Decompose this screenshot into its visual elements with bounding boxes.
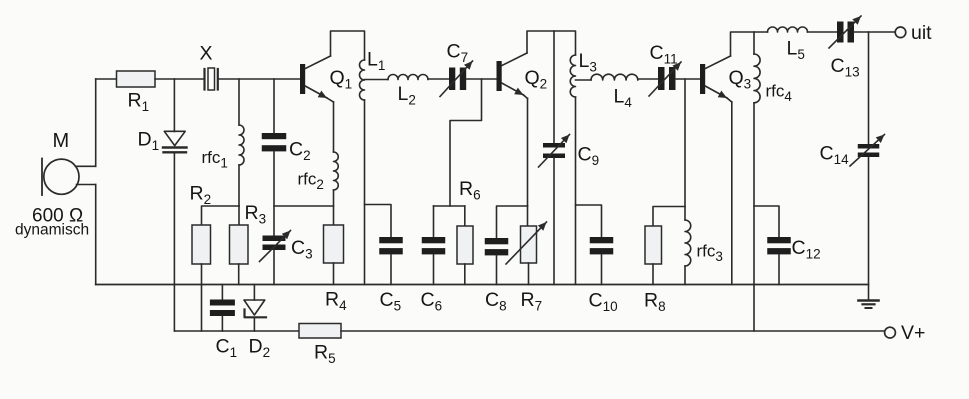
inductor L1 (360, 60, 365, 100)
wire C9 top lead from collector wire (553, 31, 555, 143)
svg-text:rfc3: rfc3 (697, 242, 723, 265)
resistor R5 (299, 324, 341, 339)
wire C6 top lead (433, 206, 435, 237)
wire C10 top jog from L3 line (576, 205, 602, 237)
capacitor C1 (210, 300, 235, 317)
wire D1 bottom lead down to V+ bus (173, 152, 175, 331)
wire C1 bottom lead (221, 316, 223, 331)
wire D2 bottom lead (253, 317, 255, 331)
wire C2 to C3 (273, 152, 275, 236)
wire Q3 collector up and over to L5 (731, 32, 768, 56)
inductor rfc3 (685, 220, 691, 266)
wire rfc1 bottom to R2/R3 node (238, 165, 240, 206)
crystal X (205, 68, 218, 90)
terminal V+ (885, 327, 896, 338)
capacitor C6 (422, 237, 446, 254)
wire C6-R6 top link (434, 205, 465, 207)
resistor R1 (117, 71, 156, 87)
wire C13 to output terminal (854, 31, 895, 33)
resistor R8 (645, 226, 662, 264)
svg-text:rfc2: rfc2 (298, 170, 324, 193)
wire C13 node down to C14 (868, 32, 870, 144)
wire R6 bottom to ground bus (464, 264, 466, 285)
svg-text:C6: C6 (421, 289, 443, 314)
wire V+ bus left segment (174, 330, 299, 332)
capacitor C2 (262, 133, 287, 151)
svg-text:C11: C11 (650, 42, 678, 67)
svg-text:L2: L2 (398, 83, 416, 108)
svg-text:C14: C14 (820, 143, 850, 168)
svg-text:R5: R5 (314, 342, 336, 367)
svg-text:C9: C9 (578, 144, 600, 169)
wire R8 top jog (653, 207, 685, 227)
wire emitter node jog to C8 (497, 206, 528, 238)
inductor rfc1 (239, 125, 244, 165)
inductor rfc2 (334, 152, 339, 190)
resistor R6 (457, 226, 473, 264)
svg-text:Q2: Q2 (525, 67, 548, 92)
svg-text:Q1: Q1 (330, 67, 353, 92)
wire ground bus (96, 284, 869, 286)
wire R1 to crystal X (155, 78, 204, 80)
resistor R2 (192, 225, 211, 264)
wire rfc3 bottom to ground bus (684, 266, 686, 285)
resistor R4 (324, 225, 344, 263)
svg-text:rfc1: rfc1 (202, 148, 228, 171)
svg-text:L3: L3 (579, 50, 597, 75)
wire C10 bottom to ground bus (601, 255, 603, 285)
svg-text:R2: R2 (190, 183, 212, 208)
wire rfc1 top lead (238, 79, 240, 125)
terminal uit (895, 27, 906, 38)
wire jog to R2 (202, 206, 240, 225)
transistor Q3 (700, 56, 732, 102)
svg-text:M: M (53, 130, 70, 152)
wire Q1 collector up and over to L1 (331, 31, 365, 60)
wire rfc4 bottom down to V+ bus (753, 103, 755, 331)
svg-text:R8: R8 (644, 289, 666, 314)
wire L1 tap to L2 (365, 79, 389, 81)
wire L3 tap to L4 (576, 79, 592, 81)
capacitor C10 (590, 237, 614, 254)
svg-text:R7: R7 (521, 289, 543, 314)
svg-text:L4: L4 (614, 86, 633, 111)
wire C2 top lead (273, 79, 275, 133)
wire X to Q1 base (218, 78, 300, 80)
capacitor C12 (767, 237, 791, 254)
wire C7 to Q2 base (466, 78, 496, 80)
svg-text:C7: C7 (447, 41, 469, 66)
wire R8 bottom to ground bus (652, 264, 654, 285)
wire C5 bottom to ground bus (390, 255, 392, 285)
wire Q3 emitter down to ground bus (731, 102, 733, 285)
svg-text:L5: L5 (787, 38, 805, 63)
wire D2 top lead (253, 285, 255, 301)
inductor L5 (768, 27, 808, 32)
wire C6 bottom to ground bus (433, 255, 435, 285)
capacitor C3 (variable) (260, 231, 291, 262)
svg-text:D2: D2 (249, 336, 271, 361)
capacitor C5 (379, 237, 403, 254)
svg-text:C2: C2 (289, 139, 311, 164)
svg-text:C12: C12 (792, 237, 821, 262)
svg-text:C5: C5 (380, 289, 402, 314)
wire rfc4 top lead (753, 32, 755, 54)
wire R4 bottom to ground bus (333, 263, 335, 285)
wire C14 bottom down to ground (868, 157, 870, 301)
wire R7 bottom to ground bus (528, 263, 530, 285)
svg-text:C3: C3 (291, 237, 313, 262)
capacitor C9 (variable) (539, 135, 570, 168)
svg-text:C8: C8 (485, 289, 507, 314)
inductor rfc4 (754, 54, 760, 103)
wire C3 node to emitter node (274, 205, 334, 207)
svg-text:C13: C13 (831, 55, 860, 80)
svg-text:Q3: Q3 (729, 67, 752, 92)
svg-text:X: X (200, 43, 213, 65)
wire L1 bottom down to ground bus (364, 100, 366, 285)
wire D1 top lead (173, 79, 175, 132)
resistor R3 (230, 225, 249, 264)
wire L3 bottom down to ground bus (575, 97, 577, 285)
capacitor C11 (trimmer) (649, 62, 681, 96)
wire L5 to C13 (808, 31, 838, 33)
inductor L2 (388, 75, 428, 80)
wire R1 left lead (96, 78, 117, 80)
svg-text:C1: C1 (216, 336, 238, 361)
capacitor C13 (trimmer) (829, 16, 861, 48)
wire C3 bottom to ground bus (273, 250, 275, 285)
wire C12 top jog from rfc4 line (754, 206, 779, 237)
wire Q2 base node down to R6/C6 node (450, 79, 482, 206)
capacitor C8 (485, 238, 509, 255)
transistor Q1 (300, 56, 334, 102)
wire C12 bottom to ground bus (778, 255, 780, 285)
wire rfc3 top lead from base wire (684, 79, 686, 220)
svg-text:dynamisch: dynamisch (15, 222, 89, 239)
wire C8 bottom to ground bus (496, 256, 498, 285)
capacitor C14 (variable) (850, 135, 885, 167)
wire C11 to Q3 base (676, 78, 701, 80)
ground (859, 301, 879, 309)
diode D1 (varicap) (163, 131, 187, 152)
svg-text:R1: R1 (128, 90, 150, 115)
diode D2 (zener) (244, 300, 266, 317)
wire R2 bottom down to V+ bus (201, 264, 203, 331)
inductor L3 (570, 55, 575, 97)
wire mic bottom lead down to ground bus (95, 185, 97, 285)
wire R3 bottom to ground bus (238, 264, 240, 285)
wire rfc2 to R4 (333, 190, 335, 225)
capacitor C7 (trimmer) (440, 61, 473, 97)
svg-text:R6: R6 (459, 178, 481, 203)
wire mic top lead up to R1 (95, 79, 97, 166)
wire Q2 emitter down (527, 99, 529, 207)
wire L2 to C7 (428, 78, 449, 80)
wire V+ bus right segment (341, 330, 885, 332)
inductor L4 (591, 74, 638, 80)
svg-text:uit: uit (911, 22, 932, 44)
svg-text:V+: V+ (901, 322, 925, 344)
svg-text:C10: C10 (589, 289, 618, 314)
wire rfc1 node to R3 (238, 206, 240, 225)
wire C9 bottom to ground bus (553, 159, 555, 285)
wire Q2 collector up and over to L3 (527, 31, 576, 55)
wire R6 top lead (464, 206, 466, 226)
wire C1 top lead (221, 285, 223, 300)
wire C5 top jog from L1 line (365, 205, 392, 238)
transistor Q2 (497, 53, 528, 99)
resistor R7 (variable) (506, 222, 547, 264)
svg-text:R3: R3 (245, 202, 267, 227)
svg-text:R4: R4 (325, 289, 347, 314)
wire L4 to C11 (638, 78, 658, 80)
microphone M (42, 159, 96, 196)
wire R7 top lead (527, 206, 529, 226)
svg-text:rfc4: rfc4 (766, 82, 793, 105)
svg-text:D1: D1 (138, 129, 160, 154)
wire Q1 emitter to rfc2 (333, 102, 335, 152)
svg-text:L1: L1 (367, 49, 385, 74)
